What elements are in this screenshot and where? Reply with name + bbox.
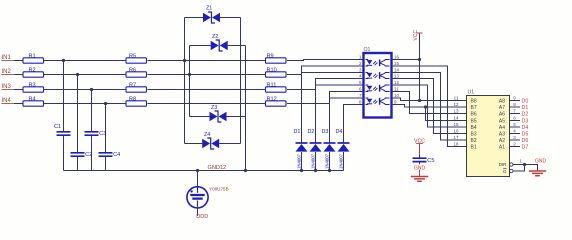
svg-text:12: 12 (394, 80, 400, 85)
svg-text:12: 12 (453, 102, 459, 107)
svg-text:R9: R9 (267, 53, 274, 59)
svg-text:D2: D2 (522, 111, 529, 117)
wire (315, 152, 317, 171)
svg-text:A1: A1 (499, 144, 505, 150)
junction (76, 73, 79, 76)
wire tap 1 (63, 61, 65, 132)
pin G (510, 169, 513, 172)
node IN4 (2, 98, 15, 104)
wire (197, 208, 199, 216)
svg-text:10: 10 (394, 93, 400, 98)
wire (302, 66, 364, 143)
svg-text:R12: R12 (267, 96, 277, 102)
svg-text:R8: R8 (129, 96, 136, 102)
svg-text:B3: B3 (471, 131, 477, 137)
svg-text:A2: A2 (499, 138, 505, 144)
svg-text:DIR: DIR (499, 162, 508, 167)
svg-text:G: G (503, 169, 507, 174)
wire (228, 45, 246, 47)
wire tap 2 (77, 75, 79, 153)
node IN2 (2, 69, 15, 75)
svg-text:O1: O1 (364, 47, 371, 53)
svg-text:R7: R7 (129, 82, 136, 88)
svg-text:D3: D3 (322, 129, 329, 135)
capacitor C1 (54, 124, 71, 135)
svg-text:11: 11 (454, 96, 459, 101)
svg-text:13: 13 (394, 74, 400, 79)
svg-text:R1: R1 (29, 53, 36, 59)
svg-text:R2: R2 (29, 67, 36, 73)
svg-text:B6: B6 (471, 111, 477, 117)
wire (14, 60, 23, 62)
diode D1 (294, 129, 308, 169)
wire (148, 60, 266, 62)
svg-text:13: 13 (453, 109, 459, 114)
power GND (413, 164, 426, 171)
svg-text:14: 14 (394, 68, 400, 73)
wire (316, 79, 364, 144)
svg-text:C5: C5 (427, 158, 434, 164)
zener Z1 (203, 6, 220, 24)
wire (392, 79, 456, 134)
wire (14, 74, 23, 76)
svg-text:Z1: Z1 (206, 6, 212, 12)
svg-text:14: 14 (453, 116, 459, 121)
svg-text:3: 3 (513, 135, 516, 140)
wire (148, 89, 266, 91)
svg-text:D4: D4 (522, 125, 529, 131)
svg-text:15: 15 (394, 61, 400, 66)
svg-text:B2: B2 (471, 138, 477, 144)
svg-text:DDD: DDD (196, 214, 208, 220)
svg-text:U1: U1 (468, 90, 475, 96)
svg-text:R6: R6 (129, 67, 136, 73)
wire (148, 74, 266, 76)
wire (392, 105, 456, 108)
svg-text:2: 2 (359, 61, 362, 66)
svg-text:4: 4 (513, 129, 516, 134)
svg-text:A6: A6 (499, 111, 505, 117)
svg-text:R5: R5 (129, 53, 136, 59)
svg-text:8: 8 (513, 102, 516, 107)
resistor R6 (126, 67, 147, 77)
wire (392, 98, 456, 101)
capacitor C5 (413, 158, 435, 164)
junction (418, 99, 421, 102)
junction (523, 163, 526, 166)
junction (244, 169, 247, 172)
svg-text:A7: A7 (499, 105, 505, 111)
ground (529, 171, 546, 176)
wire (392, 59, 420, 61)
svg-text:C3: C3 (99, 131, 106, 137)
svg-text:C1: C1 (54, 124, 61, 130)
wire (14, 103, 23, 105)
zener Z2 (211, 34, 228, 51)
svg-text:5: 5 (359, 80, 362, 85)
resistor R10 (266, 67, 287, 77)
wire zener right bus 1 (240, 18, 242, 144)
svg-text:VCC: VCC (413, 30, 419, 41)
junction (314, 169, 317, 172)
node IN1 (2, 55, 15, 61)
wire (392, 66, 456, 147)
resistor R9 (266, 53, 287, 63)
svg-text:1: 1 (520, 158, 523, 163)
wire (190, 116, 210, 118)
junction node A (183, 59, 186, 62)
svg-text:D3: D3 (522, 118, 529, 124)
diode D3 (322, 129, 336, 169)
wire (426, 107, 456, 121)
svg-text:1N4007: 1N4007 (338, 153, 343, 169)
resistor R12 (266, 96, 287, 106)
wire (287, 73, 364, 75)
svg-text:D4: D4 (336, 129, 343, 135)
svg-text:B4: B4 (471, 125, 477, 131)
pin DIR (510, 158, 523, 166)
svg-text:5: 5 (513, 122, 516, 127)
battery V08U75B (187, 186, 229, 208)
capacitor C4 (99, 152, 121, 158)
svg-text:B1: B1 (471, 144, 477, 150)
svg-text:3: 3 (359, 68, 362, 73)
wire (44, 74, 127, 76)
wire (190, 45, 211, 47)
junction node B (188, 73, 191, 76)
wire (392, 85, 456, 127)
svg-text:R4: R4 (29, 96, 36, 102)
wire net GND12 (64, 170, 344, 172)
resistor R5 (126, 53, 147, 63)
wire (44, 103, 127, 105)
svg-text:D6: D6 (522, 138, 529, 144)
optocoupler O1 (364, 47, 392, 118)
svg-text:Z2: Z2 (212, 34, 218, 40)
resistor R7 (126, 82, 147, 92)
wire (220, 17, 241, 19)
svg-text:GND: GND (414, 165, 426, 171)
ground (411, 177, 428, 182)
wire (148, 103, 266, 105)
junction (328, 169, 331, 172)
resistor R4 (23, 96, 44, 106)
svg-text:4: 4 (359, 74, 362, 79)
wire (419, 144, 421, 156)
svg-text:B7: B7 (471, 105, 477, 111)
wire tap 3 (91, 90, 93, 132)
wire (185, 17, 204, 19)
wire (419, 162, 421, 164)
svg-text:6: 6 (359, 87, 362, 92)
svg-text:D7: D7 (522, 144, 529, 150)
wire (392, 92, 456, 114)
node D0-D7 (522, 98, 529, 150)
wire (301, 152, 303, 171)
pin numbers O1 left 1-8 (359, 55, 362, 105)
svg-text:C2: C2 (85, 152, 92, 158)
svg-text:B5: B5 (471, 118, 477, 124)
wire (287, 60, 364, 61)
wire (185, 143, 203, 145)
pin numbers U1 left 11-18 (453, 96, 466, 147)
wire (419, 60, 421, 101)
capacitor C3 (85, 131, 107, 137)
svg-text:GND: GND (535, 159, 547, 165)
wire (344, 105, 364, 144)
svg-text:IN3: IN3 (2, 84, 12, 90)
capacitor C2 (71, 152, 93, 158)
wire (287, 98, 364, 104)
wire zener left bus 2 (189, 46, 191, 117)
wire (219, 143, 240, 145)
svg-text:D1: D1 (522, 105, 529, 111)
svg-text:Z3: Z3 (211, 105, 217, 111)
resistor R8 (126, 96, 147, 106)
svg-text:A3: A3 (499, 131, 505, 137)
junction (196, 169, 199, 172)
resistor R1 (23, 53, 44, 63)
pin numbers O1 right 16-9 (394, 55, 400, 105)
svg-text:IN4: IN4 (2, 98, 12, 104)
svg-text:R10: R10 (267, 67, 277, 73)
svg-text:D2: D2 (308, 129, 315, 135)
svg-text:D5: D5 (522, 131, 529, 137)
svg-text:C4: C4 (113, 152, 120, 158)
svg-text:8: 8 (359, 100, 362, 105)
svg-text:Z4: Z4 (204, 132, 210, 138)
wire tap 4 (105, 104, 107, 153)
junction (104, 102, 107, 105)
wire (44, 60, 127, 62)
svg-text:IN1: IN1 (2, 55, 12, 61)
wire zener left bus 1 (184, 18, 186, 144)
zener Z3 (210, 105, 227, 122)
svg-text:IN2: IN2 (2, 69, 12, 75)
wire (343, 152, 345, 171)
svg-text:R11: R11 (267, 82, 277, 88)
power VCC (413, 30, 423, 41)
svg-text:7: 7 (513, 109, 516, 114)
svg-text:R3: R3 (29, 82, 36, 88)
wire (392, 73, 456, 141)
wire (44, 89, 127, 91)
svg-text:A8: A8 (499, 98, 505, 104)
IC U1 (467, 90, 510, 177)
wire (419, 34, 421, 60)
wire (513, 165, 525, 172)
junction (90, 88, 93, 91)
svg-text:6: 6 (513, 116, 516, 121)
svg-text:18: 18 (453, 142, 459, 147)
wire (330, 92, 364, 144)
wire (197, 171, 199, 187)
svg-text:16: 16 (394, 55, 400, 60)
diode D2 (308, 129, 322, 169)
diode D4 (336, 129, 350, 169)
wire (329, 152, 331, 171)
wire (513, 165, 538, 172)
svg-text:1N4007: 1N4007 (310, 153, 315, 169)
svg-text:15: 15 (453, 122, 459, 127)
svg-text:A5: A5 (499, 118, 505, 124)
svg-text:A4: A4 (499, 125, 505, 131)
svg-text:16: 16 (453, 129, 459, 134)
node IN3 (2, 84, 15, 90)
svg-text:2: 2 (513, 142, 516, 147)
svg-text:GND12: GND12 (208, 165, 227, 171)
svg-text:1: 1 (359, 55, 362, 60)
svg-text:7: 7 (359, 93, 362, 98)
wire (14, 89, 23, 91)
svg-text:9: 9 (513, 96, 516, 101)
wire (419, 164, 421, 177)
svg-text:D1: D1 (294, 129, 301, 135)
svg-text:D0: D0 (522, 98, 529, 104)
junction (300, 169, 303, 172)
wire (419, 156, 421, 158)
svg-text:9: 9 (394, 100, 397, 105)
svg-text:17: 17 (453, 135, 459, 140)
wire (287, 85, 364, 90)
junction (424, 105, 427, 108)
junction (62, 59, 65, 62)
wire zener right bus 2 (245, 46, 247, 171)
resistor R11 (266, 82, 287, 92)
svg-text:1N4007: 1N4007 (324, 153, 329, 169)
resistor R3 (23, 82, 44, 92)
svg-text:B8: B8 (471, 98, 477, 104)
power VCC (414, 138, 425, 144)
junction (418, 58, 421, 61)
zener Z4 (202, 132, 219, 149)
pin numbers U1 right 9-2 (510, 96, 521, 147)
svg-text:1N4007: 1N4007 (296, 153, 301, 169)
svg-text:Y08U75B: Y08U75B (209, 186, 229, 191)
resistor R2 (23, 67, 44, 77)
svg-text:11: 11 (394, 87, 399, 92)
wire (227, 116, 246, 118)
